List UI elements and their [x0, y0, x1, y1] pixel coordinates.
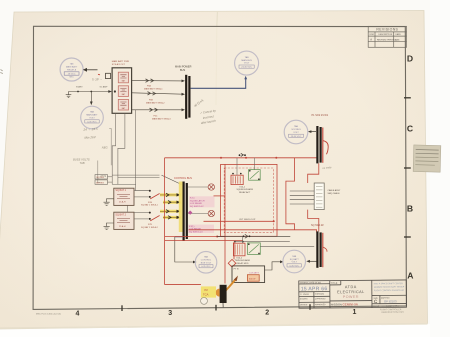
svg-text:SQ BAT 1 SW A-1: SQ BAT 1 SW A-1	[141, 204, 159, 207]
stamp TAB main bus volt	[235, 51, 259, 75]
svg-text:SYS A/1 CKT: SYS A/1 CKT	[112, 63, 126, 66]
wire to control bus volt stamp	[175, 237, 197, 264]
zone number 2	[265, 309, 269, 316]
svg-text:P1 SO2 #1 W1: P1 SO2 #1 W1	[312, 114, 329, 117]
P2 TCA yellow label	[201, 286, 216, 297]
svg-text:GEMINI-9A: GEMINI-9A	[342, 302, 357, 306]
red link terminal block to J2	[308, 210, 319, 232]
svg-text:GENERAL DATE OF ISS: GENERAL DATE OF ISS	[300, 281, 322, 284]
title block	[299, 280, 407, 308]
svg-text:GP 52103: GP 52103	[384, 299, 397, 303]
magenta note K7-1 squib latch	[190, 198, 205, 208]
svg-text:F7A: F7A	[148, 201, 152, 204]
svg-text:SQ REG: SQ REG	[96, 177, 104, 179]
magenta note K7L lox relay	[189, 226, 203, 234]
svg-text:TITLE: TITLE	[331, 282, 338, 285]
svg-text:RELAY A: RELAY A	[67, 69, 76, 72]
svg-text:VOLT: VOLT	[244, 63, 250, 65]
yellow wire 3 into control bus	[160, 210, 181, 213]
control bus yellow highlight	[179, 182, 183, 233]
microprint under title block	[380, 309, 405, 314]
svg-text:4-66: 4-66	[395, 39, 400, 41]
red bus left vertical	[164, 158, 166, 285]
fold crease top center	[216, 11, 218, 105]
red stub to diamond flag	[233, 242, 235, 260]
svg-text:MAIN BATT PWR: MAIN BATT PWR	[112, 60, 130, 63]
svg-text:VOLT: VOLT	[291, 262, 297, 264]
label SC AMP	[100, 86, 108, 89]
TCA plug bar	[215, 285, 226, 303]
main battery unit box	[112, 68, 132, 114]
voltage tap wire lower	[118, 177, 160, 179]
cable assy label	[328, 189, 341, 195]
svg-text:BUSS VOLTS: BUSS VOLTS	[73, 158, 90, 162]
svg-text:TAB: TAB	[245, 56, 250, 59]
ground squib battery 1	[104, 199, 114, 206]
red wire control group to squib plug	[189, 230, 317, 233]
yellow wire 2 into control bus	[163, 201, 181, 204]
svg-text:SCALE: SCALE	[373, 305, 380, 308]
svg-text:TWIN BUS ARM: TWIN BUS ARM	[235, 259, 251, 262]
yellow wire 1 into control bus	[160, 193, 181, 196]
inspection stamp circle small	[201, 298, 208, 305]
zone number 3	[168, 310, 172, 317]
svg-text:CONTROL BUS: CONTROL BUS	[174, 177, 192, 180]
stamp TAB squib batt volt	[283, 250, 306, 273]
svg-text:15 APR 66: 15 APR 66	[301, 286, 328, 292]
zone letter B	[407, 203, 413, 213]
zone number 4	[76, 311, 80, 318]
margin pencil smudge	[0, 70, 3, 74]
svg-text:MAIN BATT: MAIN BATT	[86, 114, 98, 117]
border frame	[33, 26, 406, 309]
red wire ckt loop	[204, 220, 275, 222]
magenta highlight K7-1	[189, 196, 215, 207]
relay module K14-2 contact	[248, 243, 261, 255]
squib tag box 1	[95, 175, 108, 179]
SO2 plug bar J1	[317, 126, 328, 163]
squib plug bar J2	[317, 231, 327, 267]
svg-text:MAIN BATT SW A-3: MAIN BATT SW A-3	[152, 118, 171, 121]
svg-text:F6C: F6C	[154, 115, 158, 117]
svg-text:RELAY ACT: RELAY ACT	[239, 191, 251, 194]
yellow wire 4 into control bus	[163, 216, 181, 219]
svg-text:MSC: MSC	[69, 76, 74, 78]
svg-text:ELECTRICAL: ELECTRICAL	[337, 290, 364, 294]
svg-text:SQ BAT 1: SQ BAT 1	[115, 189, 126, 192]
row 1 labels	[144, 85, 163, 91]
row 3 labels	[152, 115, 171, 120]
svg-text:BU REG: BU REG	[96, 182, 104, 184]
title text ATDA ELECTRICAL POWER	[337, 285, 365, 299]
svg-text:TAB: TAB	[80, 161, 85, 165]
index tab on right paper edge	[413, 145, 441, 172]
svg-text:DATE: DATE	[396, 33, 402, 36]
squib battery 1 box	[114, 188, 134, 205]
pencil note Tr 2B	[92, 77, 103, 82]
mission row GEMINI	[331, 302, 358, 306]
svg-text:SC AMP: SC AMP	[100, 86, 108, 89]
stamp TAB main batt volt	[81, 106, 104, 129]
svg-text:MISSION: MISSION	[331, 302, 342, 306]
relay coil K7-2	[188, 210, 215, 216]
svg-text:MAIN BATT SW A-2: MAIN BATT SW A-2	[146, 101, 165, 104]
wire row3 drop to squib switch	[112, 110, 149, 191]
svg-text:DESIGN: DESIGN	[300, 304, 308, 306]
main battery unit label	[112, 60, 130, 66]
svg-text:F7B: F7B	[148, 224, 152, 226]
svg-text:2: 2	[265, 309, 269, 316]
pencil buss volts tab	[73, 158, 90, 166]
zone tick bottom x216	[215, 305, 217, 311]
magenta diamond marker	[188, 211, 192, 215]
wire down to batt volt stamp	[90, 92, 93, 106]
svg-text:SO2 BUS: SO2 BUS	[291, 129, 301, 131]
squib tag box 2	[95, 180, 108, 184]
contact marks on red line A	[239, 153, 246, 156]
ground at start of input wire	[66, 92, 72, 98]
control bus bar	[184, 182, 187, 241]
svg-text:RELAY MOD: RELAY MOD	[237, 262, 250, 265]
label K14-2	[235, 257, 251, 265]
svg-text:3: 3	[168, 310, 172, 317]
main batt output row 2 wire	[132, 92, 185, 96]
svg-text:TCA: TCA	[203, 293, 209, 297]
svg-text:P2: P2	[205, 288, 209, 292]
svg-text:STRESS: STRESS	[300, 299, 308, 301]
input wire to main battery box	[69, 90, 117, 93]
svg-text:1: 1	[353, 309, 357, 316]
svg-text:B: B	[407, 203, 413, 213]
zone number 1	[353, 309, 357, 316]
inner dashed red outline	[224, 168, 273, 233]
red box bottom edge	[165, 284, 201, 286]
svg-text:25 A-H: 25 A-H	[119, 225, 126, 228]
svg-text:APPROVED: APPROVED	[315, 297, 326, 300]
svg-text:LOX RELAY: LOX RELAY	[189, 228, 202, 231]
pencil NEG	[102, 145, 108, 149]
svg-text:SQUIB BUS ARM: SQUIB BUS ARM	[237, 188, 254, 191]
relay module K14-1 contact	[249, 170, 261, 181]
voltage tap wire upper	[112, 174, 159, 176]
row 2 labels	[146, 99, 165, 104]
squib bat 2 fuse switch	[134, 212, 160, 221]
svg-text:BUS: BUS	[180, 69, 185, 72]
svg-text:SQ SW4 #2: SQ SW4 #2	[311, 224, 324, 227]
svg-text:SQ SW4 14-3: SQ SW4 14-3	[189, 232, 203, 234]
squib bat 1 fuse switch	[134, 190, 160, 199]
blue wire to main bus volt stamp	[191, 76, 248, 89]
voltmeter bracket line	[98, 129, 111, 183]
relay module K14-1 coil	[231, 173, 243, 185]
red zigzag link bus to squib line	[286, 158, 295, 230]
svg-text:POWER: POWER	[343, 295, 359, 299]
svg-text:E. Howes: E. Howes	[300, 294, 309, 296]
blue stub at control bus bottom	[175, 236, 183, 238]
squib bat 1 switch labels	[141, 201, 159, 207]
svg-text:CHECKED: CHECKED	[315, 294, 325, 296]
squib box interlink wire	[127, 205, 129, 212]
svg-text:TAB: TAB	[204, 256, 209, 259]
K14-2 feed wire	[235, 236, 290, 243]
svg-text:Min 26V: Min 26V	[84, 135, 96, 140]
svg-text:REVISIONS: REVISIONS	[376, 28, 398, 32]
svg-text:VOLT: VOLT	[89, 118, 95, 120]
red wire K7-1 to arming loop	[214, 195, 226, 197]
svg-text:ATDA: ATDA	[345, 285, 357, 289]
red bus line A horizontal	[165, 157, 317, 159]
svg-text:D: D	[407, 54, 413, 64]
P1 SO2 plug label	[312, 114, 329, 117]
svg-text:VOLT: VOLT	[293, 132, 299, 134]
small terminal box at main batt input	[106, 73, 111, 78]
red link J1 to terminal block	[308, 163, 319, 183]
svg-text:4: 4	[76, 311, 80, 318]
svg-text:DESCRIPTION: DESCRIPTION	[379, 34, 393, 36]
svg-text:A: A	[407, 271, 413, 281]
revision table	[368, 26, 406, 47]
zone letter A	[407, 271, 413, 281]
date stamp 15 APR 66	[301, 286, 328, 292]
svg-text:MSC-A SPACECRAFT CENTER: MSC-A SPACECRAFT CENTER	[374, 282, 404, 285]
wire main box bottom left drop	[112, 113, 115, 184]
svg-text:FLIGHT CONTROL DIVISION HO: FLIGHT CONTROL DIVISION HO	[374, 290, 405, 292]
svg-text:MAIN BATT SW A-1: MAIN BATT SW A-1	[144, 88, 163, 91]
main power bus label	[175, 66, 192, 72]
svg-text:SQ BAT 2 SW A-2: SQ BAT 2 SW A-2	[141, 226, 159, 229]
svg-text:SYM: SYM	[369, 34, 374, 36]
zone tick bottom x310	[309, 304, 311, 310]
svg-text:K7-1: K7-1	[190, 198, 195, 200]
svg-text:C: C	[407, 123, 413, 133]
magenta highlight K7L	[188, 225, 214, 233]
stamp TAB SO2 bus volt	[284, 120, 308, 144]
svg-text:F6A: F6A	[147, 85, 151, 88]
battery cell 2	[118, 86, 128, 97]
svg-text:A: A	[370, 37, 372, 41]
plug bar tail wire	[222, 303, 224, 308]
stamp TAB control bus volts	[195, 251, 217, 273]
svg-text:NEG: NEG	[102, 145, 108, 149]
label START	[76, 86, 83, 89]
svg-text:MAIN BUS: MAIN BUS	[241, 59, 252, 62]
squib bat 2 switch labels	[141, 224, 159, 229]
svg-text:CABLE ASSY: CABLE ASSY	[328, 189, 341, 192]
svg-text:600 W: 600 W	[249, 278, 256, 280]
wire main box bottom right drop	[118, 113, 125, 184]
relay K14-1 feed wires	[237, 158, 254, 175]
control bus label	[174, 177, 192, 180]
pencil note at G+A	[193, 98, 205, 108]
svg-text:TAB: TAB	[292, 255, 297, 258]
tag box stub wires	[108, 177, 113, 182]
black squib loop wire with contacts	[217, 234, 291, 238]
red wire lower branch	[165, 164, 243, 283]
battery cell 3	[118, 99, 128, 110]
svg-text:REPRODUCTION COPY: REPRODUCTION COPY	[382, 312, 405, 314]
pencil no mate	[322, 166, 332, 170]
squib battery 2 box	[114, 212, 134, 229]
zone tick right edge y167	[404, 167, 411, 169]
svg-text:F6B: F6B	[149, 99, 153, 101]
svg-text:SMQ CABLE: SMQ CABLE	[328, 192, 341, 195]
relay coil K7-1	[188, 184, 215, 190]
wire contact to cable assy	[260, 246, 314, 248]
svg-text:LOX RELAY: LOX RELAY	[190, 202, 203, 205]
red diamond flag	[228, 259, 236, 267]
orange highlighted squib wire	[221, 276, 238, 296]
pencil note 24 V DC	[82, 127, 98, 132]
svg-text:K14-1: K14-1	[240, 186, 246, 188]
label ckt sw4 loop	[239, 219, 256, 221]
svg-text:SHEET 1 OF 1: SHEET 1 OF 1	[386, 306, 399, 308]
svg-text:MANNED SPACECRAFT GROUP: MANNED SPACECRAFT GROUP	[374, 285, 405, 288]
diagonal feeder into control bus top	[162, 175, 182, 184]
title block right info	[374, 282, 405, 292]
svg-text:SQ SW4 14-2: SQ SW4 14-2	[190, 206, 204, 208]
svg-text:25 A-H: 25 A-H	[119, 201, 126, 204]
battery cell 1	[118, 72, 128, 83]
svg-text:SQ BATT: SQ BATT	[290, 258, 300, 261]
svg-text:MSC Form 1462 (Jan 64): MSC Form 1462 (Jan 64)	[36, 313, 61, 316]
pencil POS	[101, 174, 107, 178]
zone letter C	[407, 123, 413, 133]
arrow J2 to squib batt stamp	[306, 260, 316, 263]
SQ SW4 plug label	[311, 224, 324, 227]
svg-text:TAB: TAB	[294, 125, 299, 128]
main power bus bar	[186, 75, 189, 119]
zone letter D	[407, 54, 413, 64]
red box inner (squib arming group)	[221, 164, 277, 236]
zone tick bottom x122	[121, 305, 123, 311]
zone tick right edge y97	[404, 97, 411, 99]
svg-text:BUS VOLT: BUS VOLT	[201, 263, 212, 265]
pencil note cancel after launch	[200, 108, 217, 125]
relay module K14-2 coil	[233, 241, 245, 256]
svg-text:PT B: PT B	[234, 269, 239, 271]
svg-text:K7(L): K7(L)	[189, 226, 195, 228]
svg-text:SQ BAT 2: SQ BAT 2	[115, 213, 126, 216]
stamp TAB main batt relay	[60, 58, 83, 81]
svg-text:MAIN BATT: MAIN BATT	[66, 66, 78, 69]
cable assy terminal block	[314, 183, 324, 210]
terminal block feed stubs	[290, 191, 314, 204]
sheet microprint bottom left	[36, 313, 61, 316]
arrow from stamp to main batt wire	[83, 68, 100, 75]
wire PT B to squib batt stamp	[265, 260, 284, 270]
main batt output row 3 wire	[132, 108, 185, 111]
zone tick right edge y237	[404, 236, 411, 238]
ground squib battery 2	[104, 223, 114, 230]
svg-text:TAB: TAB	[90, 111, 95, 114]
svg-text:SQUIB LATCH: SQUIB LATCH	[190, 199, 205, 202]
pencil note min 24V	[84, 135, 96, 140]
svg-text:CONTROL: CONTROL	[201, 260, 212, 262]
svg-text:START: START	[76, 86, 83, 89]
label K14-1	[237, 186, 254, 194]
arrow bus bar to SO2 stamp	[308, 130, 316, 133]
main batt output row 1 wire	[132, 79, 185, 82]
svg-text:K14-2: K14-2	[237, 257, 243, 259]
svg-text:CKT SW4 LOOP: CKT SW4 LOOP	[239, 219, 256, 221]
PT B junction box	[232, 266, 265, 283]
